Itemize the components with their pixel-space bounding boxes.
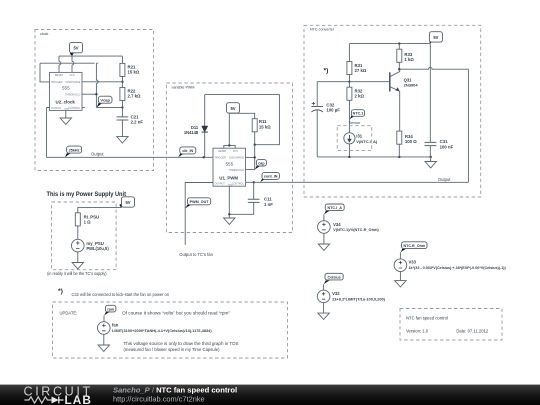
svg-text:DISCHARGE: DISCHARGE — [66, 81, 81, 84]
svg-text:CONTROL: CONTROL — [68, 107, 81, 110]
svg-text:RESET: RESET — [55, 74, 64, 77]
svg-text:5V: 5V — [73, 46, 78, 51]
svg-text:100 µF: 100 µF — [326, 108, 340, 113]
node: collector junction — [398, 68, 400, 70]
capacitor C31 100 nF — [425, 44, 454, 157]
svg-text:C32 will be connected to kick-: C32 will be connected to kick-start the … — [72, 292, 170, 297]
svg-text:PWL(10u,5): PWL(10u,5) — [86, 246, 109, 251]
resistor R31 27 kOhm — [347, 44, 367, 82]
node: C11 junction — [253, 181, 255, 183]
svg-text:100 Ω: 100 Ω — [405, 139, 417, 144]
power flag 5V (clock) — [70, 42, 83, 56]
voltage source V32 — [317, 284, 385, 313]
node: I31 bottom junction — [348, 156, 350, 158]
wire: U1 GND stub — [228, 186, 230, 218]
svg-text:Sensor: Sensor — [349, 121, 361, 125]
svg-text:1k*(33 - 0.033*V(Celsius) + 28: 1k*(33 - 0.033*V(Celsius) + 28*(EXP(-0.0… — [409, 266, 507, 270]
wire: THRESHOLD to vertical link — [82, 93, 96, 95]
resistor R11 15 kOhm — [252, 119, 271, 145]
svg-text:V32: V32 — [332, 291, 340, 296]
node: R34 bottom junction — [398, 156, 400, 158]
resistor R22 2.7 kOhm — [120, 82, 141, 108]
wire: RESET stub with hop — [59, 56, 61, 72]
op-amp U1_PWM 555 timer — [213, 148, 246, 186]
ground (under C21) — [117, 137, 128, 143]
power flag 5V (PWM) — [227, 103, 240, 114]
wire: CONTROL stub (unconnected) — [82, 107, 85, 109]
svg-text:Output to TC's fan: Output to TC's fan — [179, 252, 213, 257]
svg-text:2.7 kΩ: 2.7 kΩ — [128, 94, 142, 99]
wire: clock output to PWM trigger — [47, 108, 213, 158]
svg-text:1 kΩ: 1 kΩ — [404, 57, 414, 62]
svg-text:cont_IN: cont_IN — [264, 175, 278, 179]
power flag 5V (NTC) — [429, 32, 442, 44]
node: C31/gnd junction — [430, 156, 432, 158]
ground (U2_clock) — [60, 118, 71, 124]
wire: D11 anode rail to R11 bottom — [205, 95, 280, 145]
wire: Vcap node wire — [96, 106, 122, 108]
svg-text:VCC: VCC — [69, 74, 74, 77]
svg-text:cap: cap — [258, 161, 265, 165]
svg-text:RESET: RESET — [218, 150, 227, 153]
svg-text:5V: 5V — [433, 35, 438, 40]
node: threshold junction — [95, 93, 97, 95]
svg-text:OUTPUT: OUTPUT — [215, 182, 226, 185]
net flag Vcap — [96, 96, 112, 107]
wire: GND stub — [65, 110, 67, 118]
voltage source V34 — [318, 214, 380, 244]
svg-text:GND: GND — [228, 184, 233, 186]
ground (NTC) — [425, 162, 436, 168]
wire: C32 top wire — [317, 81, 349, 83]
svg-text:Celsius: Celsius — [328, 275, 341, 279]
net flag rpm — [104, 305, 116, 315]
svg-text:V33: V33 — [409, 260, 417, 265]
svg-text:NTC converter: NTC converter — [310, 28, 335, 32]
node: R22/C21 junction — [121, 106, 123, 108]
node: gnd/C11 junction — [228, 213, 230, 215]
svg-text:rpm: rpm — [107, 307, 115, 311]
Sensor dashed box — [337, 121, 372, 150]
wire: DISCHARGE link — [246, 156, 255, 158]
svg-text:Version: 1.0: Version: 1.0 — [406, 329, 429, 334]
wire: collector rail to output vertical — [399, 67, 468, 69]
svg-text:15 kΩ: 15 kΩ — [259, 124, 271, 129]
svg-text:Vcap: Vcap — [100, 97, 110, 102]
op-amp U2_clock 555 timer — [50, 72, 83, 110]
svg-text:NTC.1: NTC.1 — [353, 112, 364, 116]
node: R21/R22/discharge junction — [121, 81, 123, 83]
wire: output vertical and exit — [467, 69, 469, 182]
svg-text:Of course it shows “volts” but: Of course it shows “volts” but you shoul… — [122, 310, 231, 315]
svg-text:23+8.2*LIMIT(T/1u-100,0,200): 23+8.2*LIMIT(T/1u-100,0,200) — [332, 297, 386, 302]
svg-text:UPDATE:: UPDATE: — [60, 310, 78, 315]
svg-text:LAB: LAB — [65, 393, 93, 405]
wire: 5V top rail to R21 — [59, 55, 122, 57]
svg-text:DISCHARGE: DISCHARGE — [229, 157, 244, 160]
wire: PWM output down — [185, 183, 213, 245]
resistor R34 100 Ohm — [397, 131, 417, 157]
svg-text:TRIGGER: TRIGGER — [215, 157, 227, 160]
net flag NTC.1 — [349, 110, 364, 120]
wire: VCC/RESET bracket — [224, 145, 235, 148]
wire: bottom rail — [317, 156, 431, 158]
svg-text:VCC: VCC — [233, 150, 238, 153]
svg-text:OUTPUT: OUTPUT — [51, 107, 62, 110]
svg-text:This is my Power Supply Unit: This is my Power Supply Unit — [47, 191, 127, 198]
resistor Ri_PSU 1 Ohm — [75, 213, 99, 240]
svg-text:Output: Output — [438, 177, 451, 182]
net flag PWM_OUT — [185, 198, 211, 209]
node: D11 cathode / trigger wire junction — [203, 156, 205, 158]
svg-text:1 nF: 1 nF — [264, 202, 273, 207]
svg-text:2 kΩ: 2 kΩ — [355, 94, 365, 99]
net flag NTC.I_A — [324, 204, 344, 214]
diode D11 1N4148 — [184, 95, 208, 158]
clock section dashed box — [35, 30, 154, 171]
title dashed box — [400, 309, 502, 341]
wire: 5V to R11 top — [229, 113, 254, 118]
node: discharge junction — [254, 156, 256, 158]
NTC converter dashed box — [304, 25, 481, 197]
ground (U1_PWM) — [224, 218, 235, 224]
svg-text:Date: 07.11.2012: Date: 07.11.2012 — [456, 329, 488, 334]
wire: 5V vertical to IC bracket — [228, 114, 230, 146]
svg-text:THRESHOLD: THRESHOLD — [65, 94, 81, 97]
svg-text:555: 555 — [62, 86, 70, 91]
svg-text:*): *) — [58, 288, 63, 295]
voltage source fan — [98, 316, 213, 345]
capacitor C21 2.2 nF — [117, 107, 144, 136]
svg-text:GND: GND — [64, 109, 69, 111]
transistor Q31 2N3904 — [390, 69, 419, 131]
svg-text:NTC.R_Ohm: NTC.R_Ohm — [403, 244, 425, 248]
wire: VCC stub with hop — [72, 56, 74, 72]
wire: trigger loop left — [40, 63, 50, 82]
svg-text:5V: 5V — [230, 106, 235, 111]
power flag 5V (PSU) — [120, 197, 135, 208]
node: R33 top junction — [398, 42, 400, 44]
svg-text:1 Ω: 1 Ω — [84, 220, 92, 225]
wire: 5V to R_PSU — [78, 207, 122, 212]
wire: CONTROL to NTC output (long) — [246, 181, 469, 183]
voltage source V33 — [394, 252, 506, 280]
svg-text:U2_clock: U2_clock — [56, 99, 76, 104]
ground (PSU) — [72, 263, 83, 269]
wire: top supply rail — [349, 43, 430, 45]
variable PWM dashed box — [166, 83, 292, 233]
svg-text:NTC fan speed control: NTC fan speed control — [406, 316, 448, 321]
svg-text:variable PWM: variable PWM — [172, 85, 195, 89]
wire: base wire — [349, 81, 389, 83]
svg-text:NTC.I_A: NTC.I_A — [328, 206, 343, 210]
wire: THRESHOLD link — [246, 169, 255, 171]
svg-text:U1_PWM: U1_PWM — [219, 175, 238, 180]
net flag clk_IN — [178, 147, 196, 157]
svg-text:clock: clock — [40, 32, 49, 36]
svg-text:(measured fan / blower speed i: (measured fan / blower speed in my Time … — [124, 347, 221, 352]
svg-text:27 kΩ: 27 kΩ — [355, 68, 367, 73]
svg-text:(in reality it will be the TC': (in reality it will be the TC's supply) — [47, 271, 107, 276]
svg-text:V(NTC.I_A): V(NTC.I_A) — [356, 139, 378, 144]
wire: I31 bottom — [348, 144, 350, 157]
net flag Celsius — [324, 273, 344, 284]
resistor R33 1 kOhm — [397, 44, 415, 70]
ground (V34) — [318, 244, 329, 250]
svg-text:Sancho_P / NTC fan speed contr: Sancho_P / NTC fan speed control — [113, 386, 237, 395]
svg-text:clk_IN: clk_IN — [182, 149, 193, 153]
svg-text:This voltage source is only to: This voltage source is only to draw the … — [124, 341, 239, 346]
svg-text:1N4148: 1N4148 — [184, 130, 199, 135]
svg-text:CONTROL: CONTROL — [232, 182, 245, 185]
svg-text:25kHz: 25kHz — [69, 148, 80, 152]
wire: trigger rail — [40, 62, 98, 64]
ground (V33) — [395, 281, 406, 287]
resistor R32 2 kOhm — [347, 82, 365, 133]
UPDATE dashed box — [53, 302, 288, 358]
svg-text:5V: 5V — [125, 200, 130, 205]
current source I31 V(NTC.I_A) — [344, 133, 378, 144]
svg-text:Output: Output — [91, 152, 104, 157]
net flag 25kHz — [65, 146, 82, 157]
capacitor C11 1 nF — [229, 182, 273, 214]
ground (fan) — [98, 345, 109, 351]
svg-text:THRESHOLD: THRESHOLD — [229, 169, 245, 172]
svg-text:2.2 nF: 2.2 nF — [131, 120, 144, 125]
net flag NTC.R_Ohm — [400, 242, 427, 253]
svg-text:TRIGGER: TRIGGER — [51, 81, 63, 84]
svg-text:15 kΩ: 15 kΩ — [128, 70, 140, 75]
capacitor C32 100 uF (polarized) — [311, 82, 340, 157]
wire: DISCHARGE to R21/R22 junction with hop — [82, 81, 122, 83]
PSU dashed box — [52, 202, 117, 270]
ground (V32) — [318, 313, 329, 319]
svg-text:http://circuitlab.com/c7t2nke: http://circuitlab.com/c7t2nke — [113, 395, 205, 404]
net flag cont_IN — [260, 172, 279, 182]
node: bracket junction — [228, 144, 230, 146]
net flag cap — [255, 160, 267, 170]
wire: vertical trigger/threshold link — [96, 63, 98, 107]
node: R31/R32/base junction — [348, 81, 350, 83]
voltage source my_PSU PWL(10u,5) — [72, 239, 110, 262]
svg-text:555: 555 — [225, 161, 233, 166]
svg-text:*): *) — [324, 68, 329, 75]
svg-text:V(NTC.1)/V(NTC.R_Ohm): V(NTC.1)/V(NTC.R_Ohm) — [333, 227, 379, 232]
node: R11 bottom junction — [254, 144, 256, 146]
svg-text:LIMIT(3100+2000*TANH(-4.1+V(Ce: LIMIT(3100+2000*TANH(-4.1+V(Celsius)/13)… — [112, 328, 212, 333]
svg-text:100 nF: 100 nF — [440, 144, 454, 149]
resistor R21 15 kOhm — [120, 56, 140, 82]
svg-text:2N3904: 2N3904 — [404, 82, 419, 87]
wire: R11 bottom vertical to THRESHOLD — [254, 145, 256, 170]
svg-text:PWM_OUT: PWM_OUT — [190, 200, 210, 204]
